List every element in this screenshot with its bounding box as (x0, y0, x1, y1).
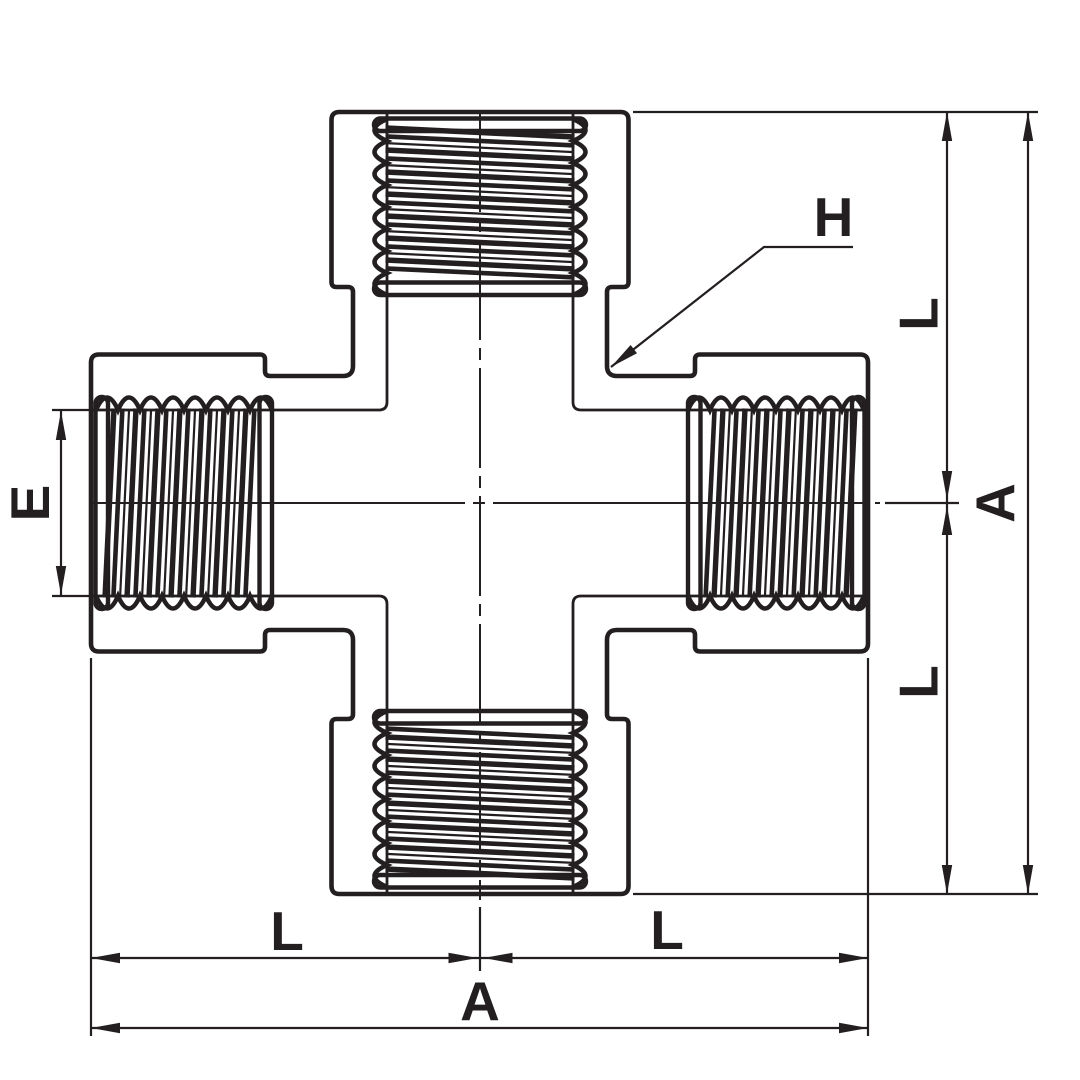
svg-text:E: E (0, 485, 61, 522)
svg-text:L: L (270, 900, 304, 962)
svg-text:A: A (460, 970, 500, 1032)
svg-text:L: L (650, 899, 684, 961)
svg-text:H: H (814, 186, 854, 248)
svg-text:L: L (888, 297, 950, 331)
svg-text:L: L (888, 665, 950, 699)
svg-text:A: A (964, 483, 1026, 523)
